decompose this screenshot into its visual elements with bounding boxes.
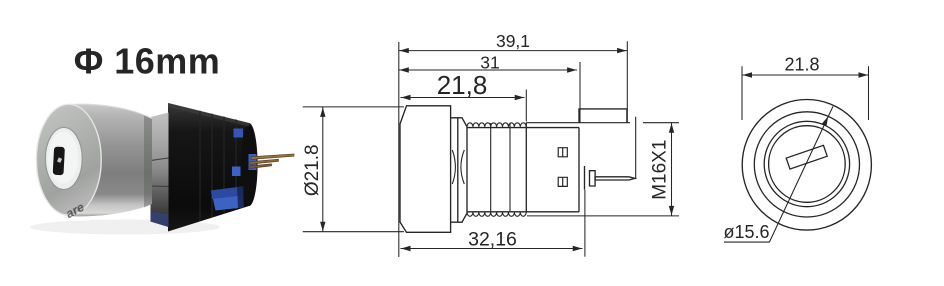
dim Ø21.8 line [322,107,324,232]
rear tab [579,109,627,123]
svg-text:Ø21.8: Ø21.8 [302,144,323,196]
dim 31 line [399,69,577,71]
key slot rectangle [786,145,827,169]
thread root / body top line [467,127,579,129]
photo: soft shadow [30,220,220,235]
pin flange vertical [584,166,586,190]
terminal 2 [558,177,567,186]
dim 39,1 right extension [626,41,628,122]
leader line for ø15.6 [724,106,833,242]
circle 2 [754,112,859,217]
dim M16X1 top extension [526,122,679,124]
svg-text:21,8: 21,8 [437,70,488,100]
head (bezel) outline [400,106,451,233]
dim 21.8 line [742,74,869,76]
terminal 1 [558,148,567,157]
photo: blue terminal details [211,129,257,211]
svg-text:39,1: 39,1 [496,31,530,51]
pin with pointed tip [595,177,635,180]
left shared extension line [398,42,400,257]
photo: title text "Φ 16mm" [74,41,221,82]
hex nut outline [451,118,467,222]
dim Ø21.8 extensions [303,107,404,232]
svg-text:M16X1: M16X1 [650,140,671,200]
dimension texts, middle drawing [302,31,671,251]
photo: gold pins [250,154,294,168]
circle 4 [769,126,846,203]
right view arrowheads [743,72,869,126]
dim 21,8 right extension [525,90,527,122]
photo: bezel front face [36,104,101,215]
thread bottom scallops [467,212,526,216]
dim 32,16 right extension [584,190,586,257]
dim 39,1 line [399,50,627,52]
dim 21.8 extensions [742,66,869,120]
photo: hex nut between bezel and body [151,113,169,228]
thread top scallops [467,123,526,127]
photo: key slot [53,147,65,176]
dim M16X1 line [671,123,673,216]
pin flange [590,171,596,186]
thread root / body bottom line [467,211,579,213]
photo: black rear body [168,103,258,232]
body right edge [578,128,580,212]
dimension arrowheads, middle drawing [320,48,674,251]
dim M16X1 bottom extension [527,215,679,217]
svg-text:ø15.6: ø15.6 [723,222,769,242]
hex nut waist arcs [452,150,464,184]
hex nut mid line [457,118,459,222]
thread end vertical [525,123,527,212]
dim 21,8 line [401,97,525,99]
extension line at pin tip [635,117,637,179]
photo: chrome bezel cylinder [71,104,153,216]
circle 3 [764,121,849,206]
outer bezel circle [742,100,871,231]
svg-text:Φ 16mm: Φ 16mm [74,41,221,82]
dimension lines, middle drawing [303,41,679,257]
dim 31 right extension [579,62,581,123]
dim 32,16 line [401,248,583,250]
svg-text:21.8: 21.8 [784,55,819,75]
svg-text:32,16: 32,16 [468,229,517,251]
thread inner vertical lines [491,123,510,212]
right view texts [723,55,819,243]
